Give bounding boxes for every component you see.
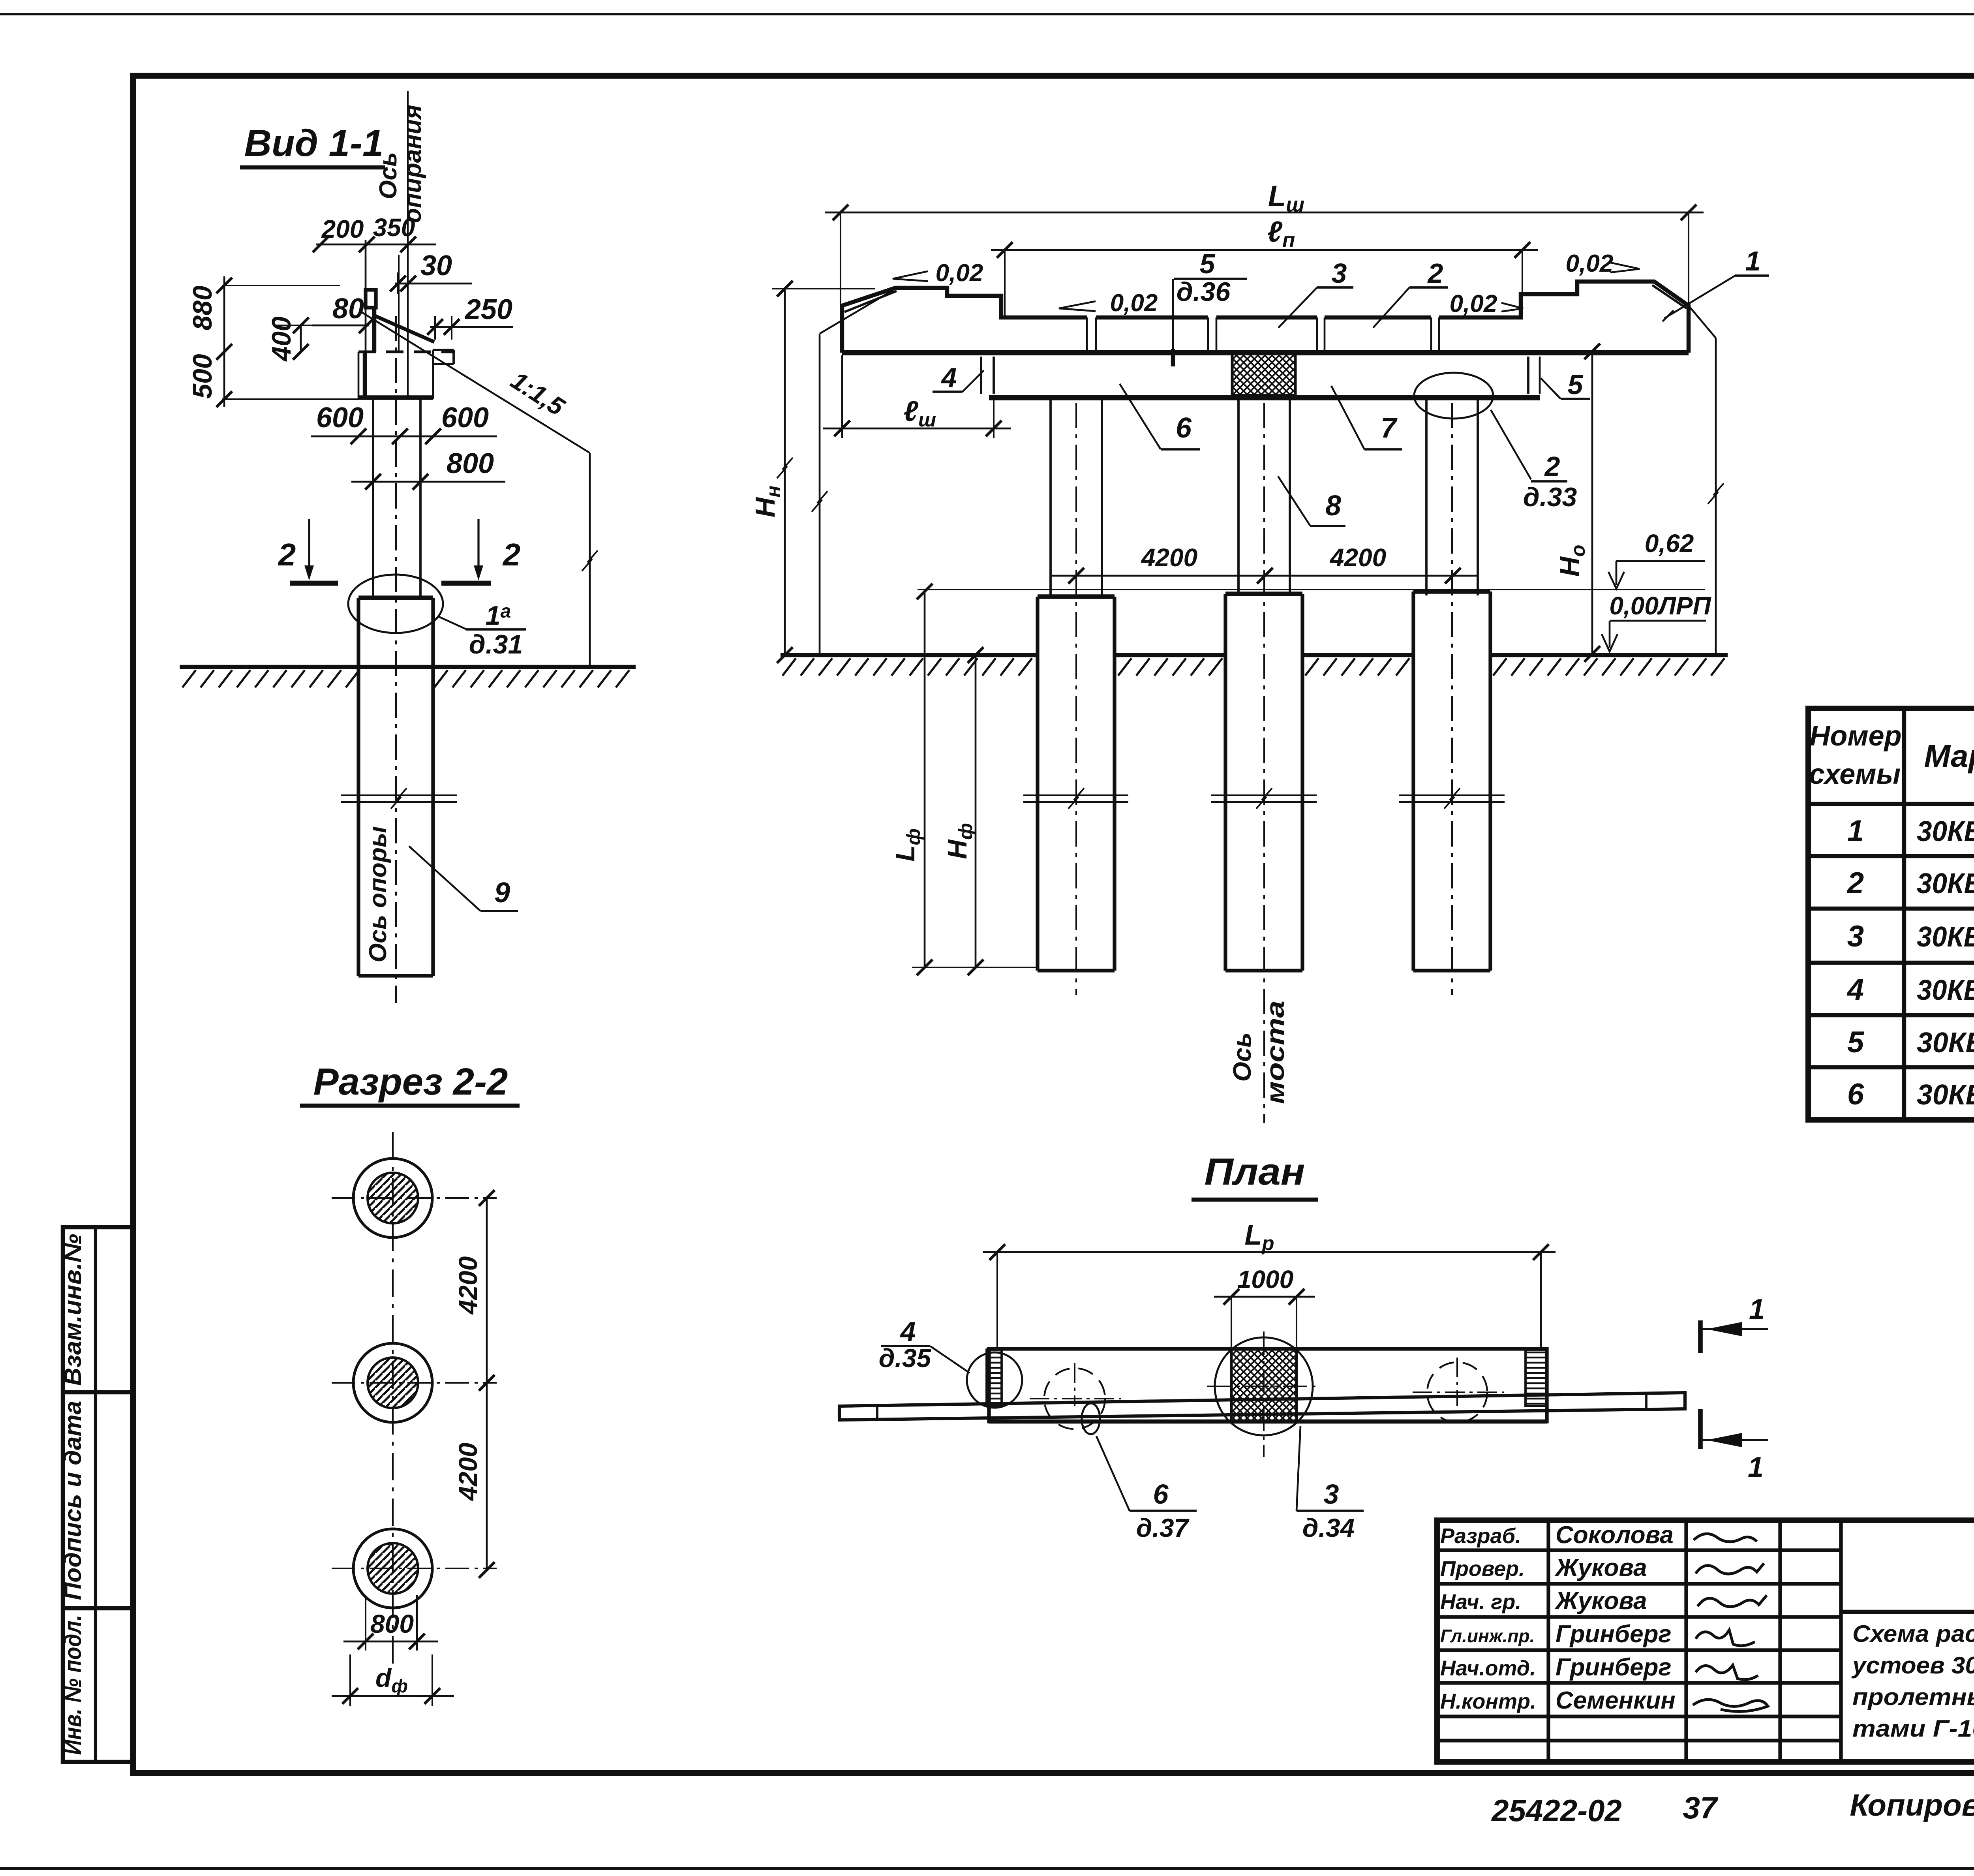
cabinet wall bbox=[366, 240, 399, 352]
deck joint 1 bbox=[1087, 317, 1096, 351]
foundation pile middle (elevation) bbox=[1211, 594, 1317, 971]
svg-text:30: 30 bbox=[420, 250, 452, 282]
dim Hо bbox=[1554, 344, 1600, 662]
svg-text:2: 2 bbox=[1544, 451, 1560, 482]
svg-text:Семенкин: Семенкин bbox=[1556, 1687, 1676, 1714]
dim Hн bbox=[750, 281, 875, 663]
deck outline (superstructure) bbox=[842, 282, 1689, 353]
svg-text:8: 8 bbox=[1325, 490, 1341, 522]
svg-text:Гл.инж.пр.: Гл.инж.пр. bbox=[1440, 1626, 1535, 1646]
svg-text:5: 5 bbox=[1847, 1025, 1865, 1059]
description text bbox=[1851, 1621, 1974, 1763]
svg-text:1: 1 bbox=[1749, 1294, 1765, 1325]
svg-text:0,00ЛРП: 0,00ЛРП bbox=[1609, 592, 1711, 620]
svg-text:4: 4 bbox=[900, 1316, 916, 1347]
svg-text:4200: 4200 bbox=[1329, 543, 1386, 572]
cap beam (plan) bbox=[989, 1349, 1547, 1422]
slab strip (plan) bbox=[839, 1393, 1685, 1420]
svg-text:30КВ 165.60-2б-ф: 30КВ 165.60-2б-ф bbox=[1917, 921, 1974, 953]
svg-text:30КВ 180.60-2 -ф: 30КВ 180.60-2 -ф bbox=[1917, 1027, 1974, 1059]
slope mark 0,02 (far left) bbox=[893, 259, 983, 287]
pile break mark bbox=[341, 788, 457, 809]
svg-text:6: 6 bbox=[1847, 1078, 1864, 1111]
slope line 1:1.5 (thin, long) bbox=[361, 312, 598, 667]
svg-text:1: 1 bbox=[1748, 1452, 1764, 1483]
svg-text:Соколова: Соколова bbox=[1556, 1521, 1674, 1549]
level mark 0,00 ЛРП bbox=[1602, 592, 1712, 652]
svg-text:План: План bbox=[1205, 1151, 1305, 1193]
bearing pad (hatched) elevation bbox=[1232, 353, 1295, 395]
svg-text:200: 200 bbox=[321, 215, 364, 243]
svg-text:0,02: 0,02 bbox=[1566, 250, 1614, 277]
dim 4200/4200 (section 2-2) bbox=[453, 1190, 495, 1578]
svg-text:5: 5 bbox=[1568, 369, 1584, 400]
svg-text:880: 880 bbox=[188, 285, 218, 331]
svg-text:0,02: 0,02 bbox=[936, 259, 983, 287]
dim Lф bbox=[890, 584, 1036, 975]
svg-text:30КВ 165.60-2а-ф: 30КВ 165.60-2а-ф bbox=[1917, 816, 1974, 847]
svg-text:800: 800 bbox=[370, 1609, 414, 1638]
svg-text:Ось: Ось bbox=[1228, 1033, 1256, 1082]
svg-text:600: 600 bbox=[441, 402, 489, 434]
detail ellipse д.37 bbox=[1082, 1403, 1100, 1434]
callout 5/д.36 bbox=[1173, 248, 1247, 366]
callout 4/д.35 bbox=[879, 1316, 970, 1373]
svg-text:1000: 1000 bbox=[1237, 1265, 1293, 1294]
svg-text:1: 1 bbox=[1745, 246, 1761, 276]
svg-text:2: 2 bbox=[502, 537, 521, 572]
svg-text:3: 3 bbox=[1332, 258, 1347, 289]
dim 250 bbox=[427, 294, 513, 340]
slope line 1:1.5 upper (thick) bbox=[375, 316, 434, 342]
svg-text:80: 80 bbox=[332, 293, 364, 325]
section mark 1 (bottom) bbox=[1700, 1409, 1768, 1483]
svg-text:Нач.отд.: Нач.отд. bbox=[1440, 1656, 1536, 1680]
cap beam (насадка) elevation bbox=[981, 357, 1540, 398]
foundation pile (view 1-1) bbox=[358, 598, 433, 976]
svg-text:Провер.: Провер. bbox=[1440, 1557, 1525, 1581]
section mark 2 (left) bbox=[278, 519, 338, 583]
plan axis bbox=[1207, 1331, 1321, 1457]
section mark 2 (right) bbox=[441, 519, 520, 583]
svg-text:схемы: схемы bbox=[1809, 759, 1901, 790]
callout 1 bbox=[1663, 246, 1769, 321]
dim 880/500 (vertical) bbox=[188, 276, 358, 407]
svg-text:3: 3 bbox=[1847, 920, 1864, 953]
svg-text:Разрез 2-2: Разрез 2-2 bbox=[313, 1061, 508, 1103]
callout 5 (right) bbox=[1541, 369, 1590, 400]
svg-text:Гринберг: Гринберг bbox=[1556, 1621, 1672, 1648]
svg-text:Марка опоры: Марка опоры bbox=[1924, 738, 1974, 774]
dim lп bbox=[991, 215, 1538, 317]
detail circle д.31 bbox=[348, 575, 526, 659]
svg-text:Гринберг: Гринберг bbox=[1556, 1654, 1672, 1681]
callout 2 (slab) bbox=[1373, 258, 1448, 328]
dim 200/350 bbox=[313, 213, 436, 252]
svg-text:350: 350 bbox=[373, 213, 415, 242]
hidden pile circle left (plan) bbox=[1030, 1363, 1121, 1429]
svg-text:тами Г-10+2×1,5; Г-11,5+2×0,75: тами Г-10+2×1,5; Г-11,5+2×0,75; bbox=[1852, 1715, 1974, 1742]
svg-text:2: 2 bbox=[1846, 866, 1864, 900]
svg-text:Жукова: Жукова bbox=[1554, 1554, 1647, 1581]
svg-text:Н.контр.: Н.контр. bbox=[1440, 1690, 1536, 1713]
svg-text:Номер: Номер bbox=[1809, 720, 1901, 752]
svg-text:0,02: 0,02 bbox=[1110, 289, 1158, 317]
svg-text:Подпись и дата: Подпись и дата bbox=[60, 1401, 86, 1600]
svg-text:5: 5 bbox=[1200, 248, 1216, 279]
pile section circle 2 bbox=[332, 1343, 497, 1422]
title block bbox=[1437, 1520, 1974, 1762]
svg-text:Копировал Мазаева: Копировал Мазаева bbox=[1850, 1788, 1974, 1822]
svg-text:2: 2 bbox=[278, 537, 296, 572]
callout 3/д.34 bbox=[1297, 1426, 1364, 1542]
svg-text:Ось: Ось bbox=[375, 152, 402, 199]
dim 600/600 bbox=[311, 402, 497, 444]
title Разрез 2-2 bbox=[300, 1061, 520, 1106]
title block roles bbox=[1440, 1521, 1676, 1714]
right ledge 250 bbox=[433, 350, 454, 364]
foundation pile left (elevation) bbox=[1023, 597, 1128, 971]
svg-text:д.36: д.36 bbox=[1177, 277, 1231, 307]
callout 8 bbox=[1278, 476, 1345, 526]
deck joint 4 bbox=[1431, 317, 1439, 351]
column left (elevation) bbox=[1051, 400, 1102, 995]
embankment slope right bbox=[1689, 306, 1724, 654]
ground line (view 1-1) bbox=[180, 667, 636, 687]
callout 6/д.37 bbox=[1096, 1436, 1197, 1542]
detail circle д.34 bbox=[1215, 1337, 1313, 1435]
svg-text:пролетные строения с габари-: пролетные строения с габари- bbox=[1852, 1684, 1974, 1710]
svg-text:7: 7 bbox=[1381, 412, 1398, 444]
svg-text:Вид 1-1: Вид 1-1 bbox=[244, 122, 384, 164]
svg-text:Инв. № подл.: Инв. № подл. bbox=[60, 1615, 86, 1755]
svg-text:моста: моста bbox=[1261, 1001, 1289, 1104]
svg-text:0,02: 0,02 bbox=[1450, 290, 1497, 317]
slope mark 0,02 (left) bbox=[1059, 289, 1158, 317]
svg-text:800: 800 bbox=[447, 448, 494, 479]
svg-text:25422-02: 25422-02 bbox=[1491, 1793, 1622, 1828]
dim 800 (section 2-2) bbox=[343, 1595, 438, 1651]
svg-text:6: 6 bbox=[1176, 412, 1192, 444]
svg-text:Схема расположения элементов: Схема расположения элементов bbox=[1852, 1621, 1974, 1647]
svg-text:4200: 4200 bbox=[453, 1256, 482, 1315]
svg-text:опирания: опирания bbox=[399, 105, 426, 223]
detail ellipse д.33 bbox=[1414, 373, 1577, 512]
svg-text:Разраб.: Разраб. bbox=[1440, 1524, 1521, 1548]
svg-text:9: 9 bbox=[494, 877, 510, 909]
pile section circle 1 bbox=[332, 1159, 497, 1238]
axis Ось моста bbox=[1228, 1001, 1289, 1104]
svg-text:4200: 4200 bbox=[453, 1442, 482, 1501]
column middle (elevation) bbox=[1238, 400, 1290, 1123]
svg-text:500: 500 bbox=[188, 354, 218, 399]
ground line (elevation) bbox=[781, 655, 1728, 676]
svg-text:4200: 4200 bbox=[1141, 543, 1197, 572]
column right (elevation) bbox=[1426, 400, 1478, 995]
slope mark 0,02 (right) bbox=[1450, 290, 1523, 317]
pier axis Ось опоры bbox=[364, 316, 396, 1003]
dim Lр bbox=[983, 1219, 1556, 1349]
dim 1000 bbox=[1214, 1265, 1315, 1349]
svg-text:600: 600 bbox=[316, 402, 364, 434]
svg-text:30КВ 165.80-2б-ф: 30КВ 165.80-2б-ф bbox=[1917, 975, 1974, 1006]
callout 4 bbox=[933, 362, 984, 393]
foundation top level line bbox=[918, 589, 1705, 590]
svg-text:30КВ 180.80-2 -ф: 30КВ 180.80-2 -ф bbox=[1917, 1079, 1974, 1111]
svg-text:д.33: д.33 bbox=[1523, 482, 1577, 512]
svg-text:Ось опоры: Ось опоры bbox=[364, 826, 392, 963]
pile section circle 3 bbox=[332, 1529, 497, 1608]
svg-text:0,62: 0,62 bbox=[1645, 529, 1694, 558]
dashed bearing level line bbox=[358, 351, 455, 353]
title Вид 1-1 bbox=[240, 122, 385, 167]
svg-text:Нач. гр.: Нач. гр. bbox=[1440, 1590, 1521, 1614]
dim 80 bbox=[312, 293, 375, 333]
callout 7 bbox=[1331, 386, 1402, 449]
slope mark 0,02 (far right) bbox=[1566, 250, 1640, 277]
cap end hatch left (plan) bbox=[987, 1350, 1002, 1406]
callout 9 bbox=[409, 846, 518, 911]
svg-text:1: 1 bbox=[1847, 814, 1864, 848]
dim Hф bbox=[942, 647, 983, 975]
svg-text:30КВ 165.80-2а-ф: 30КВ 165.80-2а-ф bbox=[1917, 868, 1974, 900]
svg-text:д.34: д.34 bbox=[1302, 1513, 1355, 1542]
deck joint 2 bbox=[1208, 317, 1216, 351]
bottom annotations bbox=[1491, 1784, 1974, 1828]
svg-text:д.35: д.35 bbox=[879, 1343, 932, 1373]
svg-text:2: 2 bbox=[1427, 258, 1443, 289]
left stamp boxes bbox=[60, 1227, 133, 1762]
cap end hatch right (plan) bbox=[1526, 1350, 1547, 1406]
svg-text:Жукова: Жукова bbox=[1554, 1587, 1647, 1615]
callout 6 bbox=[1120, 384, 1200, 449]
dim 30 bbox=[390, 250, 472, 294]
bearing square hatched (plan) bbox=[1231, 1349, 1297, 1422]
outer top scan line bbox=[0, 13, 1974, 15]
dim Lш (top) bbox=[825, 180, 1704, 306]
svg-text:д.37: д.37 bbox=[1136, 1513, 1190, 1542]
detail circle д.35 bbox=[967, 1352, 1022, 1408]
dim dф (section 2-2) bbox=[332, 1654, 454, 1706]
foundation pile right (elevation) bbox=[1399, 592, 1505, 971]
signatures bbox=[1693, 1534, 1768, 1711]
svg-text:37: 37 bbox=[1683, 1790, 1719, 1825]
embankment slope left bbox=[812, 289, 894, 655]
dim lш (elevation left) bbox=[823, 355, 1011, 438]
svg-text:4: 4 bbox=[941, 362, 957, 393]
svg-text:400: 400 bbox=[266, 316, 296, 362]
section mark 1 (top) bbox=[1700, 1294, 1768, 1353]
outer bottom scan line bbox=[0, 1867, 1974, 1870]
svg-text:устоев 30КВ tш.Нн под плитные: устоев 30КВ tш.Нн под плитные bbox=[1851, 1652, 1974, 1679]
column (view 1-1) bbox=[373, 399, 420, 598]
svg-text:6: 6 bbox=[1153, 1479, 1169, 1510]
svg-text:250: 250 bbox=[464, 294, 512, 325]
svg-text:3: 3 bbox=[1324, 1479, 1339, 1510]
hidden pile circle right (plan) bbox=[1413, 1358, 1504, 1422]
svg-text:4: 4 bbox=[1846, 973, 1864, 1007]
axis Ось опирания bbox=[375, 91, 426, 400]
svg-text:д.31: д.31 bbox=[469, 629, 523, 659]
dim 4200/4200 (elevation) bbox=[1050, 543, 1479, 584]
section 2-2 axis bbox=[392, 1132, 394, 1666]
dim 400 (vertical) bbox=[266, 316, 312, 362]
cap block (насадка) view 1-1 bbox=[358, 350, 433, 399]
schemes table bbox=[1808, 708, 1974, 1120]
dim 800 bbox=[351, 448, 505, 490]
title План bbox=[1192, 1151, 1318, 1200]
svg-text:Взам.инв.№: Взам.инв.№ bbox=[60, 1234, 86, 1386]
level mark 0,62 bbox=[1608, 529, 1705, 589]
callout 3 bbox=[1278, 258, 1353, 328]
deck joint 3 bbox=[1317, 317, 1325, 351]
